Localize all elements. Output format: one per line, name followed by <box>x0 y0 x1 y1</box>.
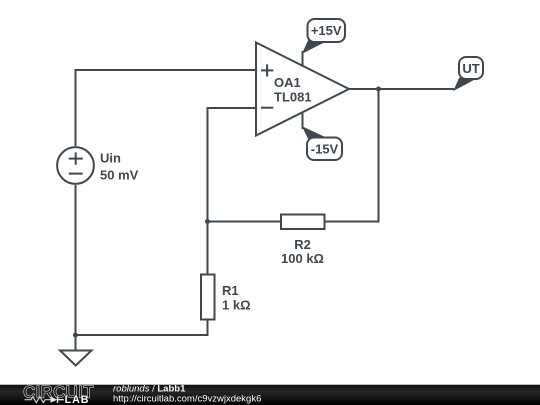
wire junction to R2 left <box>208 221 282 223</box>
junction node at feedback/R1 <box>205 219 210 224</box>
voltage source plus marker <box>69 152 83 164</box>
wire +15V stub <box>302 51 304 66</box>
logo resistor squiggle <box>25 397 51 403</box>
svg-text:R2: R2 <box>294 237 311 252</box>
flag UT box <box>459 57 483 79</box>
wire left vertical lower <box>75 185 77 336</box>
svg-text:-15V: -15V <box>311 142 339 157</box>
wire inverting input vertical <box>207 108 209 223</box>
wire ground stub <box>75 335 77 350</box>
voltage source minus marker <box>69 173 83 175</box>
wire R1 bottom stub <box>207 320 209 337</box>
flag -15V box <box>307 138 342 161</box>
wire top horizontal (+ input) <box>76 69 257 71</box>
logo diode symbol <box>51 397 58 403</box>
svg-text:LAB: LAB <box>65 394 90 405</box>
wire output horizontal <box>349 88 454 90</box>
wire R2 right to feedback corner <box>325 221 380 223</box>
voltage source Uin circle <box>57 147 94 184</box>
svg-text:TL081: TL081 <box>274 90 312 105</box>
svg-text:OA1: OA1 <box>274 75 301 90</box>
svg-text:Uin: Uin <box>100 151 121 166</box>
svg-text:50 mV: 50 mV <box>100 168 139 183</box>
wire R1 top stub <box>207 221 209 275</box>
svg-text:http://circuitlab.com/c9vzwjxd: http://circuitlab.com/c9vzwjxdekgk6 <box>113 393 261 404</box>
svg-text:UT: UT <box>462 61 479 76</box>
flag -15V tail <box>303 127 326 138</box>
op-amp minus input marker <box>261 107 273 109</box>
junction node at ground <box>73 333 78 338</box>
flag +15V tail <box>303 41 326 53</box>
wire bottom horizontal <box>76 334 208 336</box>
svg-text:R1: R1 <box>222 283 239 298</box>
op-amp plus input marker <box>261 64 273 76</box>
flag +15V box <box>308 19 346 42</box>
svg-text:1 kΩ: 1 kΩ <box>222 298 251 313</box>
op-amp U1 triangle <box>256 43 349 136</box>
flag UT tail <box>454 78 476 90</box>
ground symbol <box>60 351 92 366</box>
junction node at output <box>376 87 381 92</box>
svg-text:100 kΩ: 100 kΩ <box>281 251 324 266</box>
resistor R1 body <box>201 275 215 320</box>
wire left vertical upper <box>75 69 77 146</box>
svg-text:+15V: +15V <box>311 23 342 38</box>
wire inverting input horizontal <box>207 107 257 109</box>
wire -15V stub <box>302 112 304 129</box>
wire feedback vertical <box>378 89 380 223</box>
resistor R2 body <box>281 215 325 230</box>
